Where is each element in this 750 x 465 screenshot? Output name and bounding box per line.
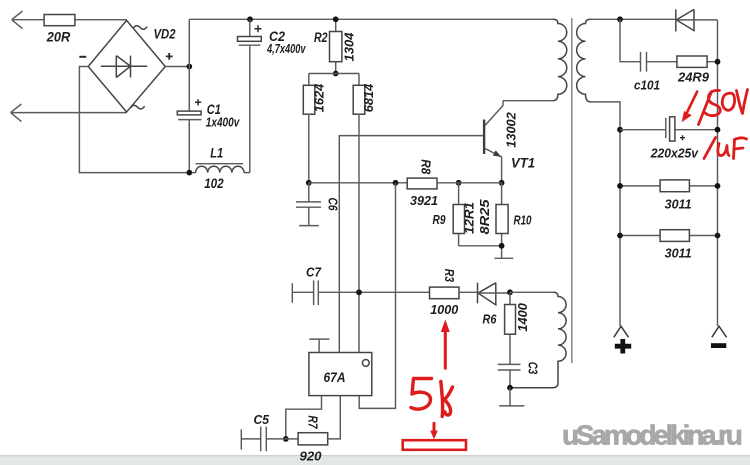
red 50V annotation (699, 90, 748, 125)
wire top DC rail (189, 18, 553, 20)
wire collector to primary (503, 100, 553, 102)
svg-text:C5: C5 (254, 412, 270, 427)
transistor VT1 (483, 101, 535, 183)
resistor 6814 (353, 83, 376, 114)
svg-text:1400: 1400 (515, 302, 530, 331)
wire IC pin to C5 junction (286, 396, 322, 439)
red arrow to 220x25v cap (686, 92, 697, 115)
svg-text:220x25v: 220x25v (650, 146, 699, 160)
node C3 bottom (507, 385, 513, 391)
capacitor 220x25v (620, 117, 718, 161)
wire horizontal to R8 (309, 182, 407, 184)
node C1 bottom rail (186, 170, 192, 176)
capacitor C6 (296, 183, 339, 226)
svg-text:13002: 13002 (504, 112, 519, 148)
wire right edge down (717, 20, 719, 326)
resistor 24R9 (677, 56, 709, 84)
svg-text:R9: R9 (433, 212, 447, 227)
wire 1624 bottom (308, 114, 310, 183)
node snubber right (715, 59, 721, 65)
transformer feedback winding (510, 292, 566, 387)
wire R8-left down to IC (359, 183, 395, 409)
svg-text:VD2: VD2 (154, 27, 176, 42)
red 1uF annotation (704, 138, 747, 159)
resistor R8 (407, 159, 438, 208)
resistor R3 (430, 269, 460, 317)
capacitor C1 (177, 99, 240, 130)
node 3011 upper left (617, 183, 623, 189)
wire secondary top to diode (591, 18, 676, 20)
svg-text:R6: R6 (483, 312, 498, 327)
+ output terminal (614, 326, 631, 353)
svg-text:C7: C7 (306, 265, 322, 280)
inductor L1 (196, 145, 244, 191)
wire C1 vertical (188, 19, 190, 172)
svg-text:1x400v: 1x400v (206, 116, 240, 130)
svg-text:1304: 1304 (342, 32, 357, 62)
svg-text:uSamodelkina.ru: uSamodelkina.ru (562, 420, 742, 451)
svg-text:L1: L1 (210, 145, 223, 160)
resistor 3011 lower (620, 230, 718, 261)
svg-text:920: 920 (300, 449, 323, 464)
svg-text:C6: C6 (325, 198, 339, 212)
node secondary top (617, 16, 623, 22)
capacitor C5 (241, 412, 269, 451)
transformer core (571, 18, 573, 363)
resistor R7 (298, 416, 328, 464)
node R2 top (333, 16, 339, 22)
diode output (676, 9, 718, 31)
red arrow to R3 value (444, 330, 447, 368)
wire secondary bottom rail (591, 102, 621, 326)
svg-text:1624: 1624 (312, 83, 327, 112)
node 3011 upper right (715, 183, 721, 189)
node cap row left (617, 127, 623, 133)
node R2 bottom (333, 71, 339, 77)
wire to feedback winding (510, 291, 554, 293)
red empty box (403, 440, 466, 450)
IC U1 67A (309, 353, 372, 396)
node 3011 lower left (617, 233, 623, 239)
resistor 3011 upper (620, 180, 718, 211)
transformer T1 primary (553, 19, 567, 100)
svg-text:VT1: VT1 (511, 154, 535, 170)
bottom band (0, 456, 750, 465)
svg-text:3921: 3921 (410, 193, 438, 208)
wire R2 bottom to 1624/6814 (309, 74, 359, 86)
resistor R10 (477, 183, 532, 258)
svg-text:4,7x400v: 4,7x400v (266, 42, 306, 56)
- output terminal (711, 326, 727, 345)
node R8 left (393, 180, 399, 186)
bridge rectifier VD2 (79, 20, 176, 112)
node diode/R6 (507, 289, 513, 295)
wire snubber branch (620, 19, 718, 61)
resistor 1624 (303, 83, 326, 114)
wire C5 to R7 (266, 438, 298, 440)
svg-text:R2: R2 (314, 30, 328, 45)
node 3011 lower right (715, 233, 721, 239)
resistor R9 (433, 183, 477, 246)
svg-text:R3: R3 (442, 269, 456, 282)
node C2 top (247, 16, 253, 22)
IC top stub terminal (309, 339, 329, 352)
wire 6814 bottom to IC pin (358, 114, 360, 352)
svg-text:20R: 20R (46, 29, 71, 45)
diode feedback (478, 283, 511, 305)
svg-text:12R1: 12R1 (462, 202, 477, 234)
svg-text:C3: C3 (525, 362, 539, 375)
node bridge+/C1 (186, 64, 192, 70)
node emitter-line left (306, 180, 312, 186)
capacitor C2 (238, 19, 307, 172)
svg-text:6814: 6814 (361, 83, 376, 112)
svg-text:c101: c101 (634, 78, 660, 92)
ground (R9/R10) (495, 257, 514, 259)
svg-text:67A: 67A (324, 369, 346, 385)
svg-text:8R25: 8R25 (477, 199, 492, 235)
svg-text:3011: 3011 (665, 196, 692, 211)
svg-text:R7: R7 (306, 416, 320, 430)
resistor R2 (314, 19, 357, 73)
wire AC input 1 with arrow (12, 11, 127, 29)
wire R7 right to IC pin (328, 396, 341, 439)
capacitor C3 (498, 362, 540, 388)
wire R3 to diode (459, 291, 478, 293)
wire emitter row (437, 182, 502, 184)
svg-text:R10: R10 (514, 213, 533, 228)
svg-text:R8: R8 (419, 159, 433, 174)
node C5/R7 junction (283, 436, 289, 442)
node emitter/R10 (499, 180, 505, 186)
wire C7 to R3 (318, 291, 429, 293)
node R10 bottom (499, 243, 505, 249)
transformer T1 secondary (577, 19, 591, 102)
wire R9-R10 bottom (459, 245, 502, 247)
svg-text:102: 102 (204, 176, 224, 191)
svg-text:1000: 1000 (430, 302, 459, 317)
capacitor C7 (292, 265, 321, 305)
red 5k annotation (411, 379, 453, 417)
red small down arrow (433, 423, 436, 433)
wire VT1 base (339, 136, 483, 353)
ground (C3) (499, 388, 524, 406)
wire AC input 2 with arrow (11, 104, 127, 122)
wire bridge minus to bottom rail (79, 67, 195, 173)
wire bridge plus to C1 node (165, 66, 189, 68)
node C7 line / IC pin (356, 289, 362, 295)
resistor 20R (44, 15, 75, 26)
node cap row right (715, 127, 721, 133)
resistor R6 (483, 292, 531, 364)
svg-text:24R9: 24R9 (677, 70, 709, 84)
capacitor c101 (634, 52, 660, 92)
svg-text:3011: 3011 (665, 246, 692, 261)
node emitter/R9 (456, 180, 462, 186)
